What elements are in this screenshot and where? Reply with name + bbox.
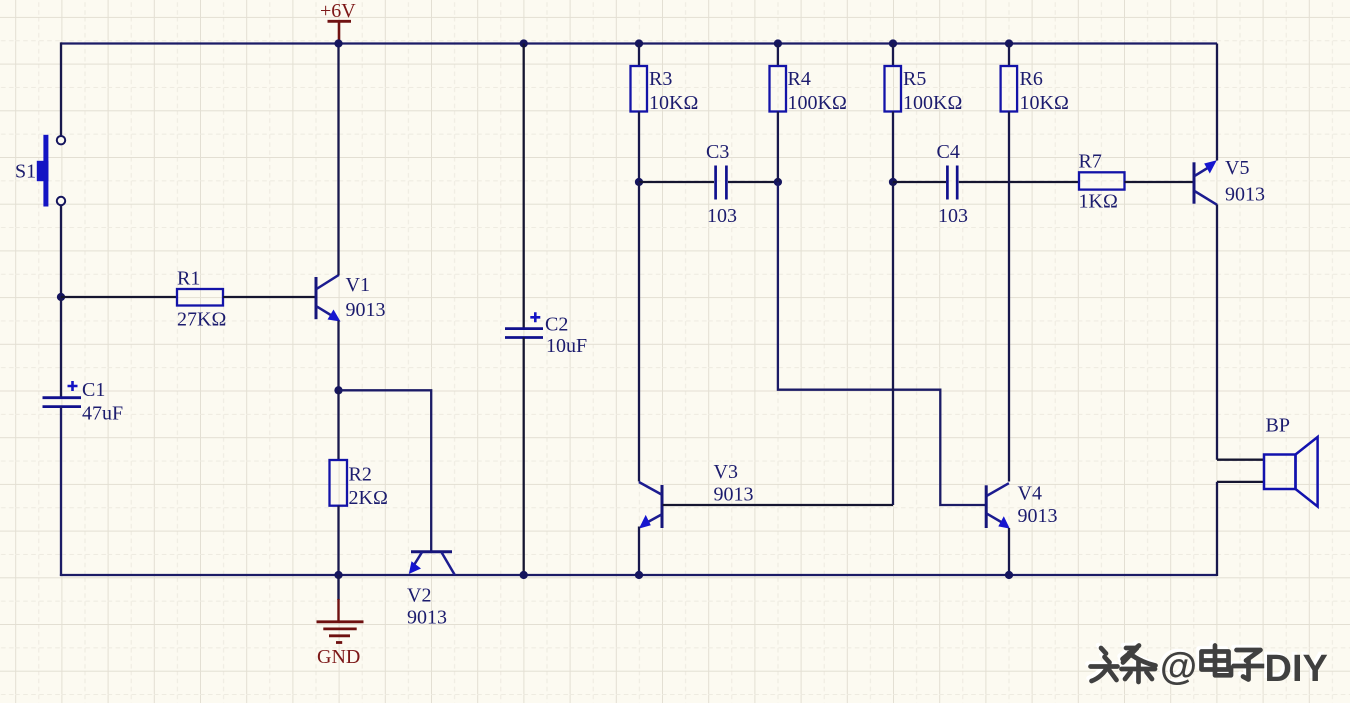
svg-text:10uF: 10uF (546, 335, 587, 357)
node bottom rail V4 (1005, 571, 1013, 579)
wire R2 to bottom rail (337, 506, 339, 575)
node top rail R6 (1005, 39, 1013, 47)
wire V3 emitter down (638, 527, 640, 576)
switch S1 (15, 135, 65, 207)
resistor R5 (885, 66, 963, 114)
svg-text:V5: V5 (1225, 157, 1249, 179)
node bottom rail V3 (635, 571, 643, 579)
svg-text:R7: R7 (1079, 151, 1102, 173)
wire R4 node down stair to V4 base (778, 182, 986, 505)
node bottom rail R2 (334, 571, 342, 579)
svg-text:C1: C1 (82, 379, 105, 401)
svg-text:10KΩ: 10KΩ (1020, 92, 1069, 114)
svg-text:1KΩ: 1KΩ (1079, 191, 1118, 213)
svg-text:BP: BP (1266, 415, 1290, 437)
wire V3 base (663, 504, 894, 506)
wire speaker stub upper (1217, 459, 1264, 461)
wire node to R2 (337, 390, 339, 460)
wire speaker to bottom rail (1216, 482, 1218, 576)
wire R4 top (777, 44, 779, 67)
node V1 emitter / R2 (334, 386, 342, 394)
wire emitter node to V2 base corner (339, 390, 432, 552)
svg-text:S1: S1 (15, 161, 36, 183)
node C4 left (889, 178, 897, 186)
speaker BP (1264, 415, 1318, 507)
node top rail R5 (889, 39, 897, 47)
wire R5 to C4 node (892, 112, 894, 183)
resistor R3 (631, 66, 699, 114)
wire R1 row left (61, 296, 177, 298)
capacitor C3 (706, 141, 737, 227)
svg-text:V3: V3 (714, 461, 738, 483)
wire C3 right (728, 181, 778, 183)
wire C4 left (893, 181, 946, 183)
wire R3 node to V3 collector (638, 182, 640, 482)
capacitor C4 (937, 141, 969, 227)
svg-text:R3: R3 (649, 68, 672, 90)
node top rail R3 (635, 39, 643, 47)
capacitor C1 (43, 379, 124, 425)
wire S1 to R1 node (60, 205, 62, 297)
resistor R1 (177, 268, 226, 331)
svg-text:47uF: 47uF (82, 403, 123, 425)
transistor V1 (316, 274, 386, 322)
wire R3 to C3 node (638, 112, 640, 183)
wire R7 to V5 base (1125, 181, 1194, 183)
wire C2 upper (523, 44, 525, 329)
svg-text:R1: R1 (177, 268, 200, 290)
svg-text:@: @ (1160, 646, 1197, 688)
svg-text:10KΩ: 10KΩ (649, 92, 698, 114)
node top rail V1 (334, 39, 342, 47)
resistor R4 (770, 66, 847, 114)
transistor V5 (1194, 157, 1265, 206)
node C3 right (774, 178, 782, 186)
svg-text:C4: C4 (937, 141, 960, 163)
svg-text:V4: V4 (1018, 483, 1042, 505)
wire C1 to bottom rail (60, 407, 62, 576)
wire top rail (61, 42, 1217, 44)
wire R1 to V1 base (223, 296, 316, 298)
svg-text:R6: R6 (1020, 68, 1043, 90)
svg-text:+6V: +6V (320, 0, 356, 22)
wire bottom rail (60, 574, 1217, 576)
svg-text:R5: R5 (903, 68, 926, 90)
node bottom rail C2 (520, 571, 528, 579)
svg-text:9013: 9013 (346, 299, 386, 321)
wire V1 collector up (337, 44, 339, 276)
wire V5 collector down to speaker (1216, 205, 1218, 460)
wire C2 lower (523, 338, 525, 576)
wire C4 right to R7 (959, 181, 1079, 183)
wire speaker stub lower (1217, 481, 1264, 483)
node C3 left (635, 178, 643, 186)
svg-text:V2: V2 (407, 585, 431, 607)
ground GND (317, 575, 364, 668)
node top rail R4 (774, 39, 782, 47)
resistor R6 (1001, 66, 1069, 114)
transistor V4 (986, 483, 1057, 529)
capacitor C2 (505, 312, 587, 357)
svg-text:R4: R4 (788, 68, 811, 90)
wire node to C1 (60, 297, 62, 398)
svg-text:9013: 9013 (1018, 505, 1058, 527)
node R1 tap (57, 293, 65, 301)
resistor R7 (1079, 151, 1125, 213)
svg-text:9013: 9013 (1225, 184, 1265, 206)
svg-text:DIY: DIY (1265, 648, 1328, 690)
wire V1 emitter down (337, 321, 339, 391)
svg-text:2KΩ: 2KΩ (349, 487, 388, 509)
wire R4 to C3 node (777, 112, 779, 183)
svg-text:C2: C2 (545, 314, 568, 336)
svg-text:V1: V1 (346, 274, 370, 296)
svg-text:103: 103 (938, 205, 968, 227)
watermark 头条 @电子DIY (1088, 643, 1328, 690)
wire V4 emitter down (1008, 528, 1010, 575)
wire C4 node down to V3 base (892, 182, 894, 505)
wire left rail upper (60, 42, 62, 135)
svg-text:100KΩ: 100KΩ (903, 92, 962, 114)
wire R3 top (638, 44, 640, 67)
power +6V (320, 0, 356, 44)
svg-text:103: 103 (707, 205, 737, 227)
svg-text:9013: 9013 (407, 607, 447, 629)
node top rail C2 (520, 39, 528, 47)
resistor R2 (330, 460, 388, 509)
svg-text:9013: 9013 (714, 484, 754, 506)
wire C3 left (639, 181, 714, 183)
wire R6 down to V4 collector (1008, 112, 1010, 482)
svg-text:R2: R2 (349, 464, 372, 486)
svg-text:GND: GND (317, 646, 360, 668)
svg-text:C3: C3 (706, 141, 729, 163)
wire R5 top (892, 44, 894, 67)
transistor V3 (639, 461, 754, 529)
svg-text:27KΩ: 27KΩ (177, 309, 226, 331)
wire V5 emitter up to top rail (1216, 44, 1218, 161)
transistor V2 (407, 552, 455, 629)
wire R6 top (1008, 44, 1010, 67)
svg-text:100KΩ: 100KΩ (788, 92, 847, 114)
